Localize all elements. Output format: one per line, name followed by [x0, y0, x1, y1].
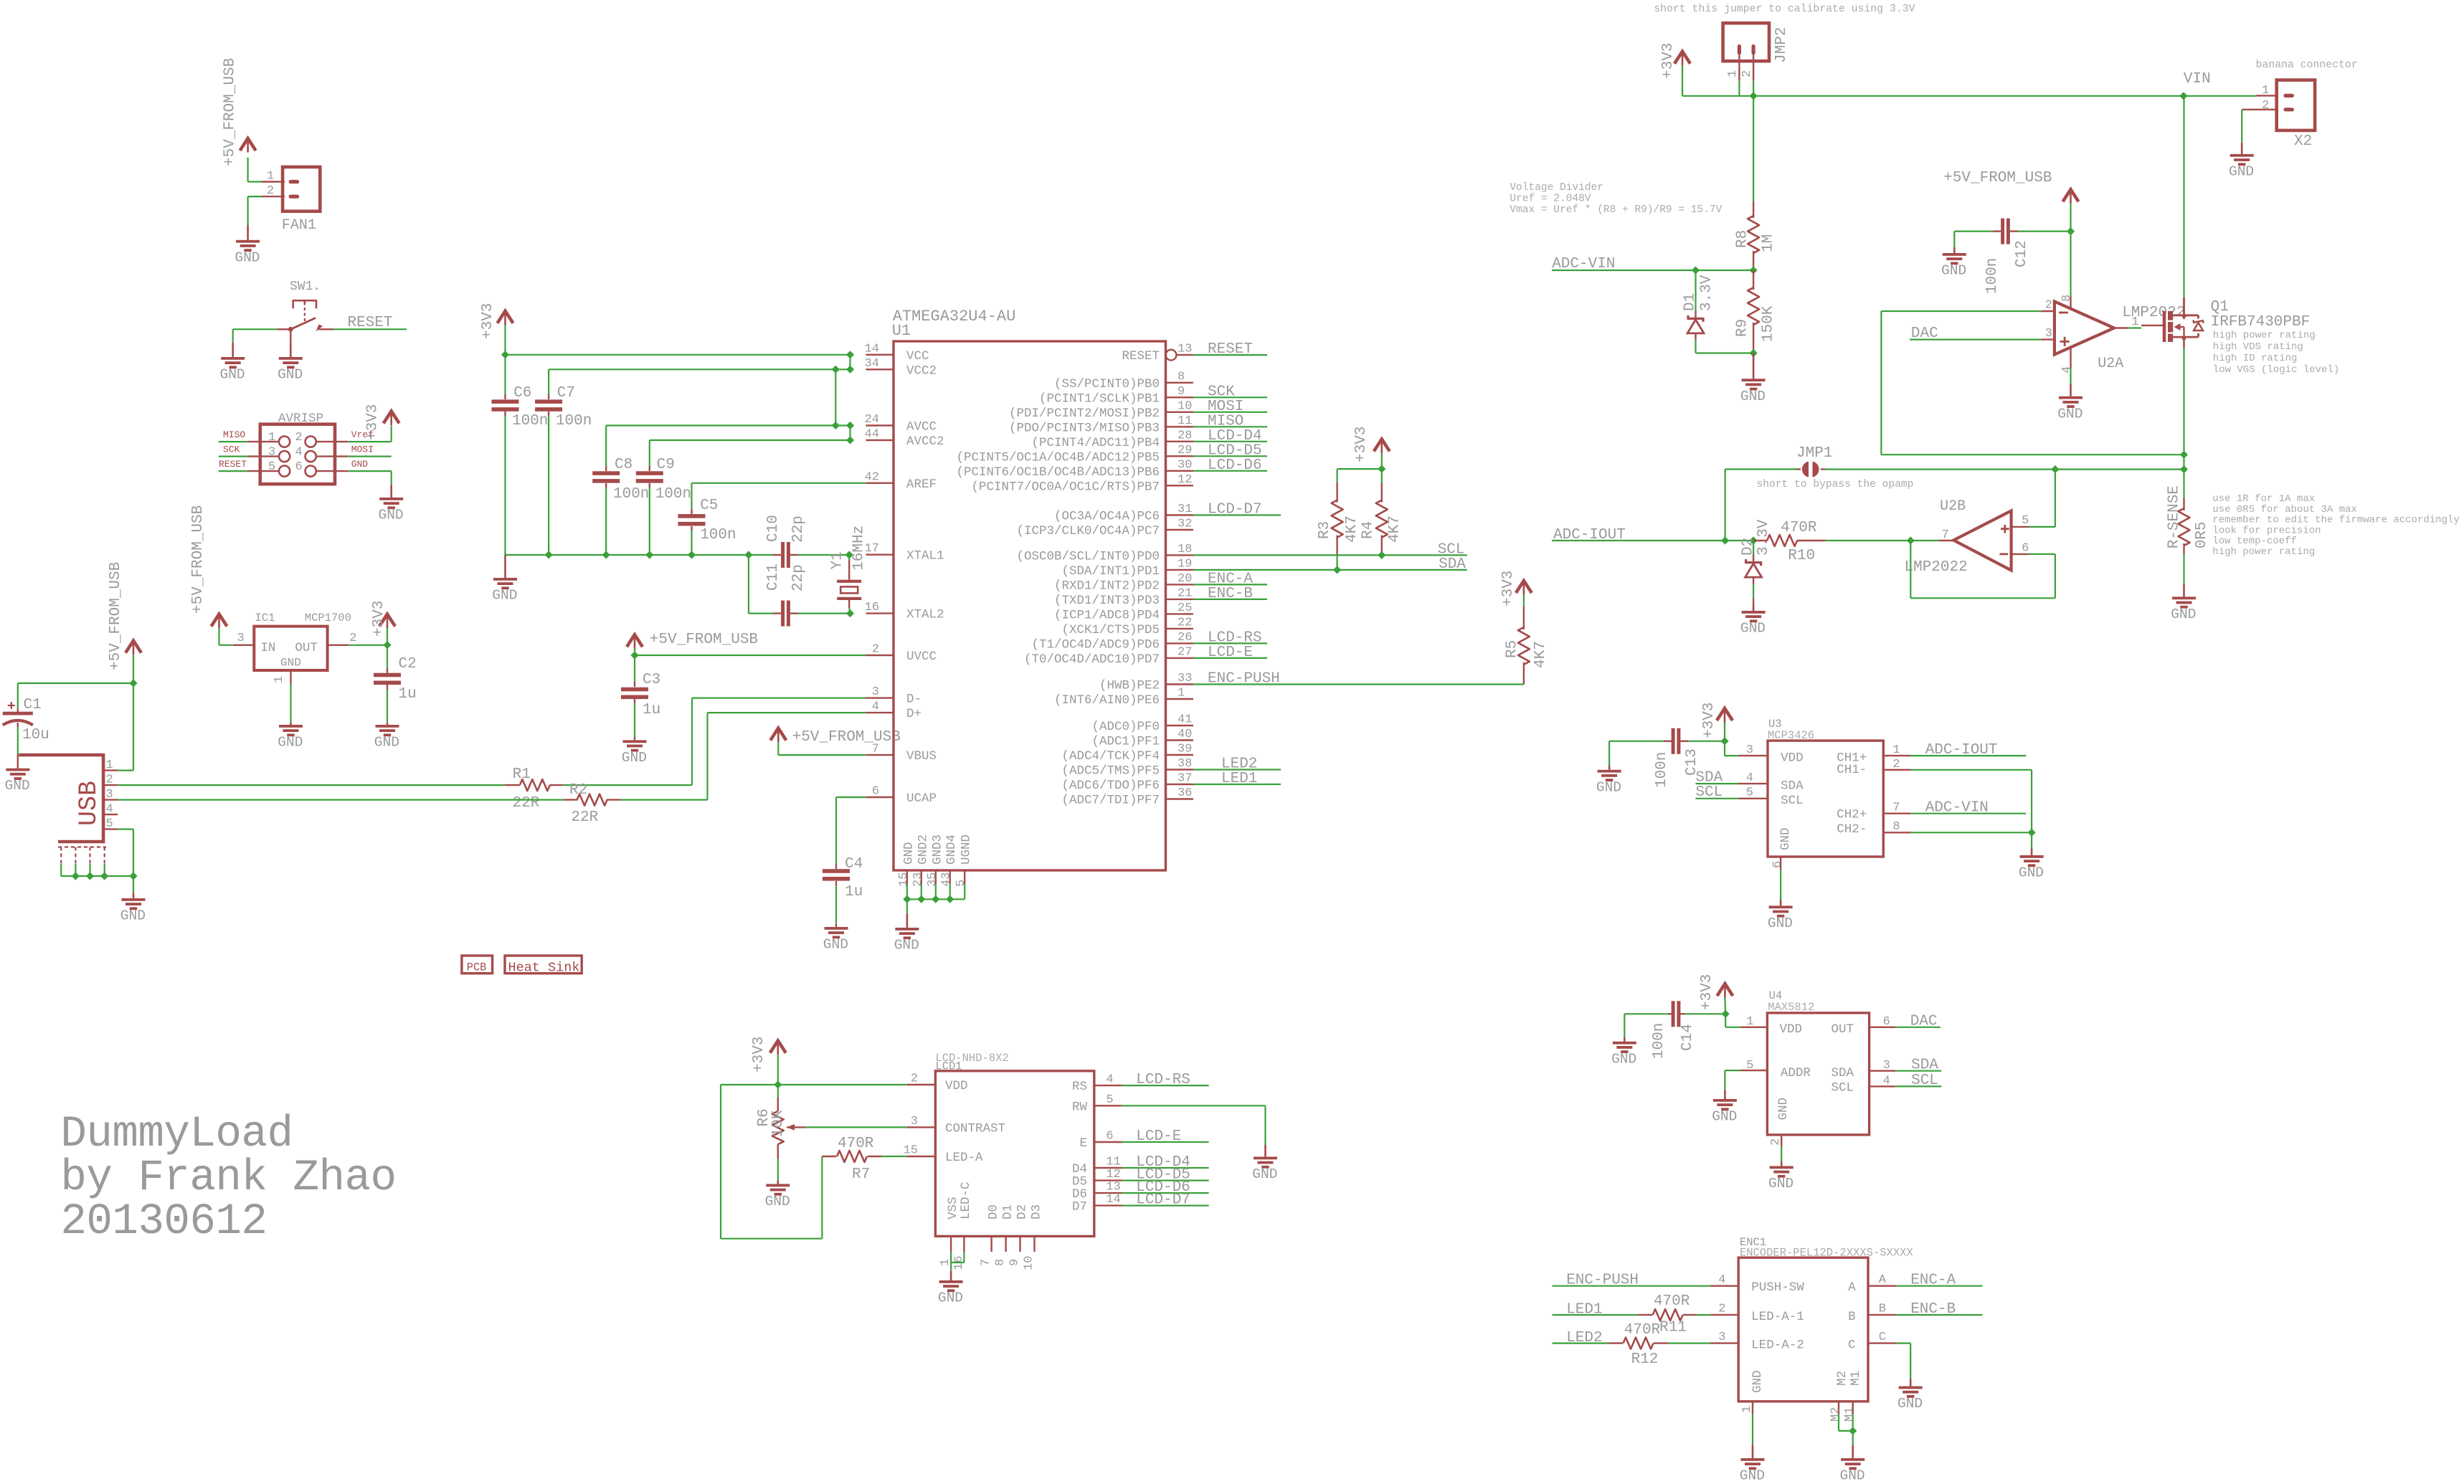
svg-text:10: 10 — [1177, 399, 1192, 413]
svg-text:ENC-B: ENC-B — [1910, 1301, 1956, 1318]
svg-text:20: 20 — [1177, 572, 1192, 586]
encoder ENC1 — [1738, 1236, 1913, 1402]
wire — [1193, 569, 1467, 571]
svg-text:5: 5 — [2022, 514, 2029, 528]
svg-text:LMP2022: LMP2022 — [1905, 559, 1968, 576]
svg-text:B: B — [1879, 1303, 1886, 1316]
net label LCD-E — [1136, 1128, 1181, 1145]
svg-text:ADC-IOUT: ADC-IOUT — [1925, 742, 1998, 758]
display LCD1 LCD-NHD-8X2 box — [935, 1052, 1094, 1236]
svg-text:U2B: U2B — [1940, 498, 1966, 515]
svg-text:+3V3: +3V3 — [1699, 974, 1715, 1010]
svg-text:7: 7 — [872, 743, 879, 756]
regulator IC1 MCP1700 — [233, 612, 357, 684]
note text Q1 — [2213, 330, 2339, 376]
svg-text:R11: R11 — [1659, 1320, 1687, 1336]
wire — [1193, 441, 1267, 442]
svg-text:17: 17 — [865, 542, 879, 556]
svg-text:4: 4 — [2060, 366, 2074, 374]
svg-text:OUT: OUT — [1832, 1022, 1854, 1037]
svg-text:30: 30 — [1177, 458, 1192, 472]
svg-text:35: 35 — [926, 872, 939, 887]
svg-text:+3V3: +3V3 — [751, 1037, 767, 1072]
power +3V3 (LCD1) — [751, 1037, 786, 1072]
svg-text:C3: C3 — [643, 672, 660, 688]
power +5V_FROM_USB (U2A) — [1943, 170, 2078, 204]
LCD1 pin 2 VDD — [907, 1072, 968, 1094]
svg-text:38: 38 — [1177, 757, 1192, 771]
U1 pin 17 XTAL1 — [865, 542, 944, 563]
svg-text:XTAL2: XTAL2 — [906, 608, 944, 622]
LCD1 pin 13 D6 — [1072, 1181, 1122, 1202]
wire — [290, 684, 291, 723]
connector X2 banana — [2242, 80, 2315, 150]
U1 pin 30 (PCINT6/OC1B/OC4B/ADC13)PB6 — [956, 458, 1193, 480]
junction — [645, 551, 653, 558]
resistor R2 22R — [564, 782, 621, 826]
svg-text:100n: 100n — [512, 413, 548, 429]
wire — [504, 325, 506, 355]
svg-text:AVCC2: AVCC2 — [906, 434, 944, 449]
wire (feedback) — [1881, 311, 2184, 455]
svg-text:(SDA/INT1)PD1: (SDA/INT1)PD1 — [1061, 564, 1160, 579]
svg-text:C12: C12 — [2014, 240, 2030, 267]
net label ADC-VIN — [1552, 256, 1615, 272]
svg-text:D1: D1 — [1001, 1204, 1015, 1219]
power +3V3 (JMP2) — [1660, 43, 1690, 79]
capacitor C13 100n — [1609, 728, 1725, 788]
net label ENC-PUSH — [1566, 1273, 1639, 1289]
svg-text:high VDS rating: high VDS rating — [2213, 341, 2303, 353]
svg-text:3: 3 — [268, 446, 275, 460]
junction — [932, 895, 939, 903]
wire — [219, 628, 233, 645]
ground (U4) — [1768, 1161, 1793, 1192]
junction — [2180, 451, 2188, 459]
net ENC-PUSH wire — [1553, 1285, 1710, 1287]
junction — [946, 895, 954, 903]
net SCL wire — [1895, 1085, 1941, 1087]
svg-text:D2: D2 — [1740, 538, 1757, 556]
LCD1 pin 6 E — [1079, 1130, 1122, 1151]
ground (R-SENSE) — [2171, 584, 2196, 622]
U2B pin 5 — [2012, 470, 2055, 528]
svg-text:1: 1 — [267, 170, 274, 184]
net ADC-IOUT wire — [1910, 755, 2026, 756]
LCD1 pin 16 LED-C — [952, 1181, 973, 1270]
svg-text:6: 6 — [2022, 542, 2029, 556]
svg-text:2: 2 — [349, 632, 356, 645]
U1 pin 35 GND3 — [926, 834, 945, 887]
U3 pin 8 — [1883, 820, 1910, 834]
svg-text:LCD-E: LCD-E — [1136, 1128, 1181, 1145]
junction — [846, 351, 854, 358]
U1 pin 8 (SS/PCINT0)PB0 — [1054, 370, 1193, 391]
svg-text:19: 19 — [1177, 557, 1192, 571]
switch SW1 — [277, 280, 333, 343]
svg-text:short to bypass the opamp: short to bypass the opamp — [1757, 479, 1914, 490]
svg-text:7: 7 — [1892, 802, 1900, 815]
junction — [1720, 737, 1728, 745]
wire — [849, 355, 850, 370]
U4 pin 2 GND — [1769, 1135, 1783, 1146]
net label ADC-IOUT — [1553, 527, 1626, 543]
svg-text:22R: 22R — [513, 795, 540, 812]
svg-text:CH2-: CH2- — [1837, 822, 1867, 837]
svg-text:VDD: VDD — [945, 1079, 968, 1093]
svg-text:U1: U1 — [892, 322, 911, 340]
net label VIN — [2184, 71, 2211, 87]
svg-text:26: 26 — [1177, 631, 1192, 645]
svg-text:D0: D0 — [987, 1204, 1001, 1219]
ground (U1) — [894, 914, 919, 953]
capacitor C14 100n — [1624, 1001, 1725, 1059]
net DAC wire — [1910, 339, 2041, 341]
svg-text:(INT6/AIN0)PE6: (INT6/AIN0)PE6 — [1054, 693, 1160, 708]
svg-text:by Frank Zhao: by Frank Zhao — [60, 1154, 396, 1203]
U4 pin 6 — [1870, 1015, 1896, 1029]
junction — [1907, 536, 1915, 544]
junction — [630, 651, 638, 659]
svg-text:3: 3 — [1746, 743, 1753, 757]
svg-text:FAN1: FAN1 — [282, 217, 316, 234]
svg-text:(PCINT1/SCLK)PB1: (PCINT1/SCLK)PB1 — [1039, 391, 1160, 406]
net label LCD-D7 — [1208, 502, 1262, 518]
junction — [744, 551, 752, 558]
svg-text:GND: GND — [492, 588, 517, 604]
wire — [849, 426, 850, 441]
svg-text:R10: R10 — [1788, 548, 1815, 564]
svg-text:R9: R9 — [1735, 319, 1751, 337]
svg-text:3.3V: 3.3V — [1755, 519, 1772, 556]
junction — [832, 422, 840, 429]
wire — [1695, 798, 1738, 799]
wire — [349, 471, 392, 485]
potentiometer R6 10K — [756, 1085, 805, 1180]
svg-text:2: 2 — [106, 774, 113, 787]
svg-text:100n: 100n — [700, 527, 736, 543]
U1 pin 33 (HWB)PE2 — [1099, 672, 1193, 693]
svg-text:1M: 1M — [1761, 234, 1777, 252]
wire — [1337, 469, 1382, 482]
svg-text:CH2+: CH2+ — [1837, 808, 1867, 822]
svg-text:short this jumper to calibrate: short this jumper to calibrate using 3.3… — [1654, 4, 1915, 15]
svg-text:GND2: GND2 — [916, 834, 930, 865]
svg-text:2: 2 — [1892, 758, 1900, 771]
resistor R10 470R — [1753, 520, 1826, 564]
svg-text:GND: GND — [1740, 621, 1766, 637]
svg-text:0R5: 0R5 — [2194, 521, 2210, 548]
net label LCD-RS — [1208, 629, 1262, 646]
svg-text:Uref = 2.048V: Uref = 2.048V — [1510, 194, 1591, 205]
ground (U3) — [1768, 900, 1793, 931]
svg-text:2: 2 — [1740, 70, 1754, 77]
svg-text:UGND: UGND — [959, 834, 974, 865]
U1 pin 31 (OC3A/OC4A)PC6 — [1054, 503, 1193, 524]
svg-text:GND: GND — [1778, 827, 1793, 850]
svg-text:7: 7 — [1942, 528, 1949, 542]
wire — [2031, 832, 2032, 848]
junction — [1721, 536, 1729, 544]
svg-text:GND: GND — [1941, 263, 1966, 279]
net label ADC-VIN — [1925, 800, 1989, 817]
svg-text:SCK: SCK — [223, 444, 240, 455]
wire — [2184, 95, 2256, 97]
svg-text:13: 13 — [1106, 1181, 1120, 1194]
svg-text:LCD-RS: LCD-RS — [1136, 1072, 1190, 1088]
svg-text:GND: GND — [278, 735, 303, 751]
junction — [545, 551, 553, 558]
net ENC-A wire — [1897, 1285, 1983, 1287]
ENC1 pin 1 GND — [1740, 1402, 1754, 1414]
net label SCL — [1438, 542, 1465, 558]
junction — [129, 679, 137, 687]
svg-text:RS: RS — [1072, 1080, 1087, 1094]
svg-text:(OC3A/OC4A)PC6: (OC3A/OC4A)PC6 — [1054, 510, 1160, 524]
U1 pin 13 RESET — [1122, 343, 1193, 364]
wire — [1897, 1343, 1911, 1379]
svg-text:2: 2 — [911, 1072, 918, 1086]
wire — [1695, 783, 1738, 784]
wire — [248, 196, 262, 225]
wire (contrast) — [805, 1126, 907, 1128]
wire — [1193, 412, 1267, 413]
svg-text:3: 3 — [1718, 1331, 1725, 1344]
capacitor C1 (polarized) — [3, 683, 49, 769]
wire — [1381, 453, 1383, 469]
svg-text:32: 32 — [1177, 518, 1192, 531]
svg-text:VCC: VCC — [906, 349, 929, 363]
svg-text:4: 4 — [295, 446, 303, 460]
wire — [1910, 770, 2032, 833]
wire — [118, 784, 505, 786]
power +5V_FROM_USB (IC1) — [190, 505, 227, 628]
svg-text:2: 2 — [267, 184, 274, 198]
svg-text:C2: C2 — [399, 656, 417, 672]
wire — [1738, 81, 1740, 96]
junction — [1333, 566, 1341, 574]
net label LCD-RS — [1136, 1072, 1190, 1088]
svg-text:C5: C5 — [700, 498, 718, 514]
net AREF wire — [692, 482, 866, 484]
junction — [846, 366, 854, 374]
svg-text:34: 34 — [865, 357, 879, 371]
wire — [835, 369, 836, 425]
net label SDA — [1439, 556, 1466, 573]
wire — [18, 682, 133, 684]
svg-text:(PCINT4/ADC11)PB4: (PCINT4/ADC11)PB4 — [1031, 436, 1160, 450]
svg-text:GND: GND — [1768, 915, 1793, 931]
svg-text:22p: 22p — [790, 564, 807, 591]
svg-text:6: 6 — [295, 460, 303, 474]
svg-text:VCC2: VCC2 — [906, 363, 937, 378]
svg-text:(SS/PCINT0)PB0: (SS/PCINT0)PB0 — [1054, 377, 1160, 391]
U3 pin 4 — [1738, 771, 1768, 785]
svg-text:D+: D+ — [906, 707, 921, 721]
wire — [219, 470, 247, 472]
U1 pin 41 (ADC0)PF0 — [1091, 713, 1193, 735]
wire — [1725, 741, 1738, 756]
U1 pin 28 (PCINT4/ADC11)PB4 — [1031, 429, 1193, 450]
svg-text:13: 13 — [1177, 343, 1192, 356]
net ADC-VIN wire — [1910, 813, 2026, 814]
capacitor C6 100n — [492, 355, 549, 555]
wire — [634, 649, 635, 655]
junction — [129, 872, 137, 880]
svg-text:D7: D7 — [1072, 1200, 1087, 1214]
svg-text:Voltage Divider: Voltage Divider — [1510, 182, 1603, 194]
svg-text:1: 1 — [2262, 84, 2269, 97]
ground (X2) — [2229, 143, 2254, 180]
wire (RW to GND) — [1122, 1105, 1266, 1145]
resistor R7 470R — [822, 1136, 906, 1183]
junction — [2028, 829, 2036, 837]
svg-text:470R: 470R — [838, 1136, 874, 1152]
wire — [1122, 1192, 1209, 1194]
wire — [1193, 642, 1267, 644]
svg-text:2: 2 — [295, 431, 303, 444]
svg-text:GND: GND — [2229, 163, 2254, 179]
svg-text:21: 21 — [1177, 586, 1192, 600]
svg-text:(PDO/PCINT3/MISO)PB3: (PDO/PCINT3/MISO)PB3 — [1009, 421, 1160, 435]
net label SCL — [1911, 1072, 1938, 1089]
junction — [1750, 92, 1758, 100]
U4 pin 1 — [1740, 1015, 1767, 1029]
svg-text:C: C — [1879, 1331, 1886, 1344]
net label DAC — [1910, 1014, 1938, 1030]
wire — [1725, 1070, 1740, 1090]
wire — [1193, 426, 1267, 427]
svg-text:(PCINT7/OC0A/OC1C/RTS)PB7: (PCINT7/OC0A/OC1C/RTS)PB7 — [971, 480, 1160, 494]
svg-text:22R: 22R — [571, 809, 598, 826]
svg-text:(XCK1/CTS)PD5: (XCK1/CTS)PD5 — [1061, 623, 1160, 637]
wire — [219, 441, 247, 442]
wire — [1122, 1204, 1209, 1206]
U1 pin 39 (ADC4/TCK)PF4 — [1061, 743, 1193, 764]
note text — [1654, 4, 1915, 15]
U1 pin 10 (PDI/PCINT2/MOSI)PB2 — [1009, 399, 1193, 421]
svg-text:GND: GND — [2171, 607, 2196, 622]
LCD1 pin 10 D3 — [1023, 1204, 1044, 1270]
svg-text:GND3: GND3 — [930, 834, 944, 865]
LCD1 pin 7 D0 — [980, 1204, 1001, 1266]
svg-text:23: 23 — [911, 872, 925, 887]
svg-text:LCD-D7: LCD-D7 — [1136, 1192, 1190, 1209]
wire — [1122, 1167, 1209, 1169]
svg-text:2: 2 — [2262, 99, 2269, 113]
wire — [1852, 1431, 1854, 1445]
svg-text:C6: C6 — [513, 385, 531, 401]
wire (JMP1 rail) — [1725, 468, 2184, 470]
U1 pin 36 (ADC7/TDI)PF7 — [1061, 786, 1193, 808]
ENC1 pin M1 — [1843, 1402, 1857, 1422]
LCD1 pin 4 RS — [1072, 1073, 1122, 1095]
wire — [506, 354, 850, 356]
power +3V3 (AVRISP Vref) — [365, 404, 399, 440]
svg-text:AREF: AREF — [906, 477, 937, 492]
wire — [563, 698, 866, 786]
svg-text:39: 39 — [1177, 743, 1192, 756]
svg-text:GND: GND — [894, 938, 919, 953]
U3 pin 5 — [1738, 786, 1768, 800]
ground — [622, 740, 647, 766]
svg-text:SDA: SDA — [1832, 1066, 1854, 1080]
svg-text:M1: M1 — [1849, 1371, 1863, 1386]
svg-text:OUT: OUT — [295, 641, 318, 655]
svg-text:(T0/OC4D/ADC10)PD7: (T0/OC4D/ADC10)PD7 — [1024, 652, 1160, 667]
svg-text:Heat Sink: Heat Sink — [508, 961, 580, 976]
svg-text:5: 5 — [1106, 1093, 1113, 1107]
svg-text:40: 40 — [1177, 728, 1192, 741]
junction — [602, 551, 610, 558]
svg-text:4: 4 — [1883, 1075, 1890, 1088]
wire — [1193, 769, 1281, 770]
svg-text:high ID rating: high ID rating — [2213, 353, 2298, 364]
wire — [118, 799, 564, 800]
svg-text:37: 37 — [1177, 772, 1192, 786]
net label LCD-D4 — [1208, 428, 1262, 444]
svg-text:VIN: VIN — [2184, 71, 2211, 87]
svg-text:C4: C4 — [845, 856, 863, 872]
net label ENC-A — [1208, 571, 1253, 587]
ground (C14) — [1611, 1037, 1636, 1067]
U1 pin 42 AREF — [865, 470, 937, 492]
junction — [1750, 536, 1758, 544]
net label SCK — [1208, 384, 1235, 400]
wire — [635, 655, 866, 656]
wire — [1697, 1314, 1710, 1316]
junction — [1750, 266, 1758, 274]
svg-text:43: 43 — [940, 872, 954, 887]
svg-text:R3: R3 — [1317, 521, 1333, 539]
svg-text:GND: GND — [1776, 1098, 1791, 1121]
junction — [846, 422, 854, 429]
connector FAN1 — [262, 167, 320, 234]
U1 pin 12 (PCINT7/OC0A/OC1C/RTS)PB7 — [971, 473, 1193, 495]
svg-text:1: 1 — [1892, 743, 1900, 757]
svg-text:GND: GND — [938, 1290, 963, 1306]
wire — [1193, 354, 1267, 356]
U1 pin 11 (PDO/PCINT3/MISO)PB3 — [1009, 414, 1193, 436]
svg-text:M2: M2 — [1835, 1371, 1849, 1386]
svg-text:22p: 22p — [790, 515, 807, 543]
U1 pin 14 VCC — [865, 342, 929, 363]
wire — [1953, 232, 1955, 247]
svg-text:100n: 100n — [556, 413, 592, 429]
U1 pin 9 (PCINT1/SCLK)PB1 — [1039, 385, 1193, 406]
svg-text:(T1/OC4D/ADC9)PD6: (T1/OC4D/ADC9)PD6 — [1031, 637, 1160, 652]
power +3V3 (IC1 out) — [371, 601, 395, 645]
wire — [506, 554, 749, 556]
svg-text:1: 1 — [2132, 315, 2139, 329]
junction — [1849, 1427, 1857, 1435]
capacitor C5 100n — [678, 483, 736, 555]
power +3V3 (R5) — [1500, 571, 1532, 607]
svg-text:GND: GND — [1596, 779, 1621, 795]
U3 pin 1 — [1883, 743, 1910, 757]
svg-text:GND: GND — [280, 657, 301, 670]
LCD1 pin 15 LED-A — [904, 1144, 983, 1166]
wire — [650, 439, 850, 441]
U2B pin 7 — [1910, 528, 1953, 542]
resistor R3 4K7 — [1317, 482, 1360, 570]
svg-text:100n: 100n — [1984, 258, 2001, 294]
svg-text:UCAP: UCAP — [906, 791, 937, 806]
svg-text:(HWB)PE2: (HWB)PE2 — [1099, 679, 1160, 693]
svg-text:GND: GND — [379, 508, 404, 523]
ground (ENC1) — [1740, 1445, 1765, 1484]
svg-text:GND: GND — [901, 842, 916, 865]
